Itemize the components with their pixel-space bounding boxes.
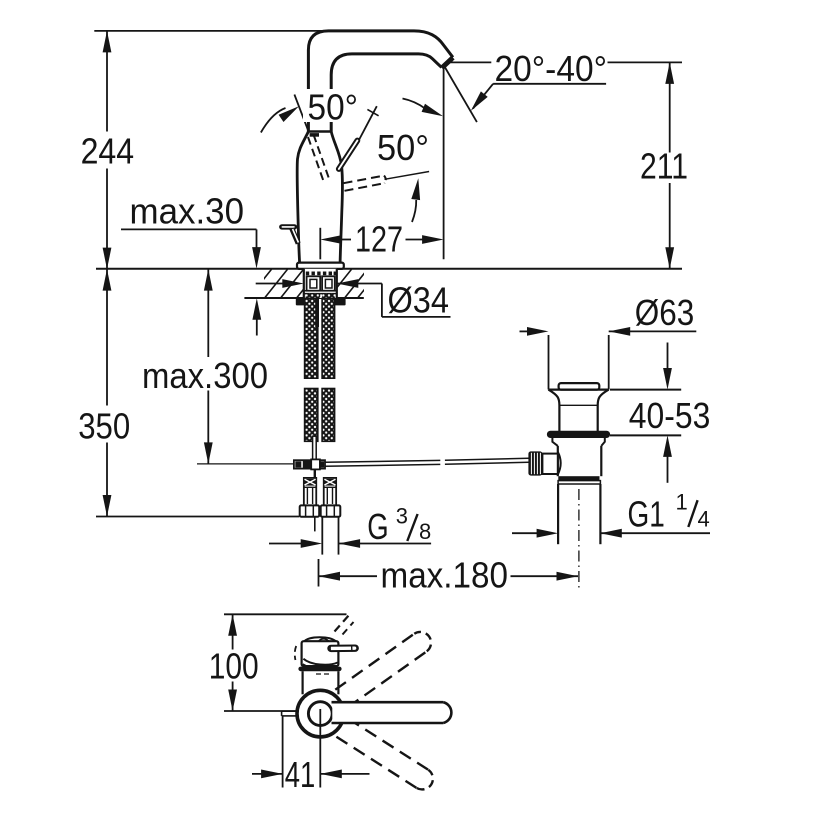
svg-text:3: 3 bbox=[396, 504, 408, 529]
svg-text:127: 127 bbox=[355, 219, 403, 260]
svg-text:50°: 50° bbox=[308, 86, 359, 127]
svg-text:350: 350 bbox=[78, 406, 130, 447]
svg-text:8: 8 bbox=[419, 519, 431, 544]
svg-text:G1: G1 bbox=[628, 494, 665, 535]
svg-text:100: 100 bbox=[209, 645, 259, 686]
svg-text:50°: 50° bbox=[377, 127, 429, 168]
svg-text:max.30: max.30 bbox=[130, 191, 245, 232]
svg-text:244: 244 bbox=[81, 130, 135, 171]
svg-text:4: 4 bbox=[698, 507, 710, 532]
svg-text:max.300: max.300 bbox=[142, 355, 268, 396]
svg-text:Ø34: Ø34 bbox=[388, 279, 450, 320]
svg-text:41: 41 bbox=[285, 754, 316, 795]
svg-text:20°-40°: 20°-40° bbox=[495, 48, 608, 89]
svg-text:1: 1 bbox=[676, 489, 688, 514]
svg-text:max.180: max.180 bbox=[381, 555, 509, 596]
svg-text:Ø63: Ø63 bbox=[635, 292, 695, 333]
svg-text:211: 211 bbox=[640, 146, 688, 187]
svg-text:G: G bbox=[367, 506, 388, 547]
svg-text:40-53: 40-53 bbox=[629, 395, 711, 436]
